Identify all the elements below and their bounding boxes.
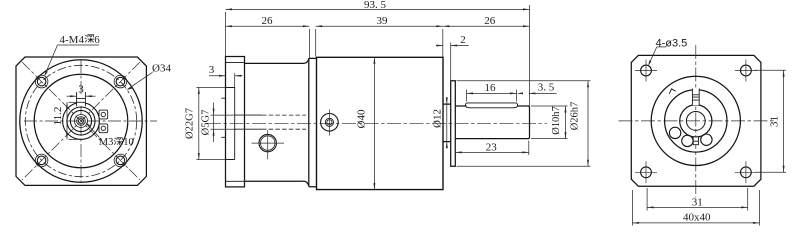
corner hole TL bbox=[641, 65, 752, 178]
left flange front boss circle bbox=[34, 74, 128, 168]
svg-text:26: 26 bbox=[484, 15, 496, 27]
dim 3 (recess depth) bbox=[209, 75, 243, 77]
dim 31 (bottom) bbox=[647, 188, 748, 211]
svg-text:Ø34: Ø34 bbox=[152, 63, 171, 75]
counterbored hole on main body bbox=[321, 114, 339, 132]
connector tabs right of hub bbox=[99, 110, 108, 133]
clamp slot at top bbox=[692, 89, 699, 106]
svg-text:Ø10h7: Ø10h7 bbox=[551, 106, 562, 135]
output flange plate bbox=[226, 57, 245, 187]
neck d12 bbox=[443, 104, 451, 142]
M4 tapped hole top-right bbox=[116, 77, 125, 86]
corner hole diagonal centerlines bbox=[22, 62, 140, 180]
svg-text:39: 39 bbox=[377, 15, 389, 27]
dim 93.5 bbox=[226, 5, 530, 106]
dim 16 (keyway length) bbox=[467, 90, 517, 102]
dim 3.5 (keyway to shaft end) bbox=[517, 92, 557, 94]
shaft keyway (side view) bbox=[465, 103, 517, 108]
svg-text:93. 5: 93. 5 bbox=[364, 0, 387, 11]
dim d22G7 bbox=[196, 88, 225, 160]
dim d12 (neck) bbox=[446, 97, 448, 149]
svg-text:M3: M3 bbox=[99, 137, 114, 148]
dim d26h7 bbox=[457, 81, 591, 166]
svg-text:Ø5G7: Ø5G7 bbox=[200, 110, 211, 136]
svg-text:40x40: 40x40 bbox=[683, 212, 711, 224]
dim 31 (right vertical) bbox=[755, 70, 786, 172]
left flange outer body circle bbox=[20, 60, 142, 182]
dim 23 (shaft length) bbox=[455, 141, 529, 156]
svg-text:10: 10 bbox=[123, 137, 134, 148]
dim 11.2 (vertical) bbox=[66, 102, 80, 139]
threaded hole on front section bbox=[259, 134, 276, 151]
svg-text:31: 31 bbox=[769, 116, 781, 127]
label 4-M4 deep 6 with leader bbox=[44, 34, 100, 77]
dim 26 (left) bbox=[226, 25, 310, 58]
notch on bore circle bbox=[669, 89, 675, 94]
M4 tapped hole bottom-right bbox=[116, 156, 125, 165]
svg-text:4-ø3.5: 4-ø3.5 bbox=[656, 37, 688, 49]
main centerlines bbox=[619, 45, 774, 198]
bolt circle d34 (dashed) bbox=[25, 65, 136, 176]
svg-text:3: 3 bbox=[78, 83, 84, 95]
main centerline bbox=[207, 122, 547, 124]
svg-text:31: 31 bbox=[692, 196, 703, 208]
svg-text:2: 2 bbox=[460, 34, 466, 46]
dim 40x40 (bottom) bbox=[632, 190, 759, 226]
M4 tapped hole top-left bbox=[35, 75, 126, 166]
svg-text:Ø26h7: Ø26h7 bbox=[570, 102, 581, 131]
d5G7 bore lines bbox=[235, 115, 262, 129]
dim d40 (vertical inside body) bbox=[373, 57, 375, 189]
svg-text:16: 16 bbox=[485, 82, 497, 94]
keyway on output shaft (front view) bbox=[77, 92, 86, 106]
recess extension line bbox=[234, 73, 236, 87]
interior: d22G7 recess bbox=[221, 88, 306, 160]
svg-text:Ø12: Ø12 bbox=[431, 109, 443, 128]
svg-text:4-M4: 4-M4 bbox=[60, 34, 85, 46]
svg-text:6: 6 bbox=[94, 34, 100, 46]
label d34 with leader bbox=[126, 63, 171, 91]
small ticks at flange face bbox=[221, 98, 225, 137]
svg-text:3. 5: 3. 5 bbox=[538, 82, 555, 94]
dim d5G7 bbox=[211, 103, 237, 143]
main centerlines of left view bbox=[24, 60, 157, 182]
clamp slot at bottom bbox=[693, 137, 698, 145]
dim 2 (neck width) bbox=[436, 43, 469, 81]
planet gear holes bbox=[669, 127, 712, 146]
dim 3 (keyway width) bbox=[67, 95, 96, 97]
input bore circle bbox=[665, 90, 727, 152]
output shaft d10h7 bbox=[455, 106, 529, 139]
svg-text:11.2: 11.2 bbox=[52, 107, 64, 126]
svg-text:26: 26 bbox=[262, 15, 274, 27]
dim d10h7 bbox=[531, 106, 568, 139]
M4 tapped hole bottom-left bbox=[37, 156, 46, 165]
output shaft circles (center hub) bbox=[63, 103, 100, 140]
svg-text:23: 23 bbox=[486, 142, 498, 154]
corner hole crosshairs bbox=[635, 60, 757, 184]
step ring before body bbox=[309, 58, 317, 186]
label M3 deep 10 with leader bbox=[85, 122, 134, 148]
svg-text:Ø22G7: Ø22G7 bbox=[185, 108, 196, 139]
output boss d26h7 bbox=[451, 81, 456, 166]
input hub circles bbox=[680, 105, 712, 137]
flange corner chamfer projection lines bbox=[226, 63, 245, 182]
main body d40 bbox=[317, 57, 444, 189]
left flange square with chamfered corners bbox=[16, 57, 146, 185]
housing front section bbox=[245, 59, 309, 187]
right flange square (rounded corners) bbox=[631, 55, 761, 186]
dim 26 (right) bbox=[443, 25, 530, 27]
dim 39 bbox=[316, 25, 443, 57]
input pilot outer circle bbox=[651, 76, 740, 165]
svg-text:3: 3 bbox=[209, 64, 215, 76]
svg-text:Ø40: Ø40 bbox=[356, 109, 368, 128]
